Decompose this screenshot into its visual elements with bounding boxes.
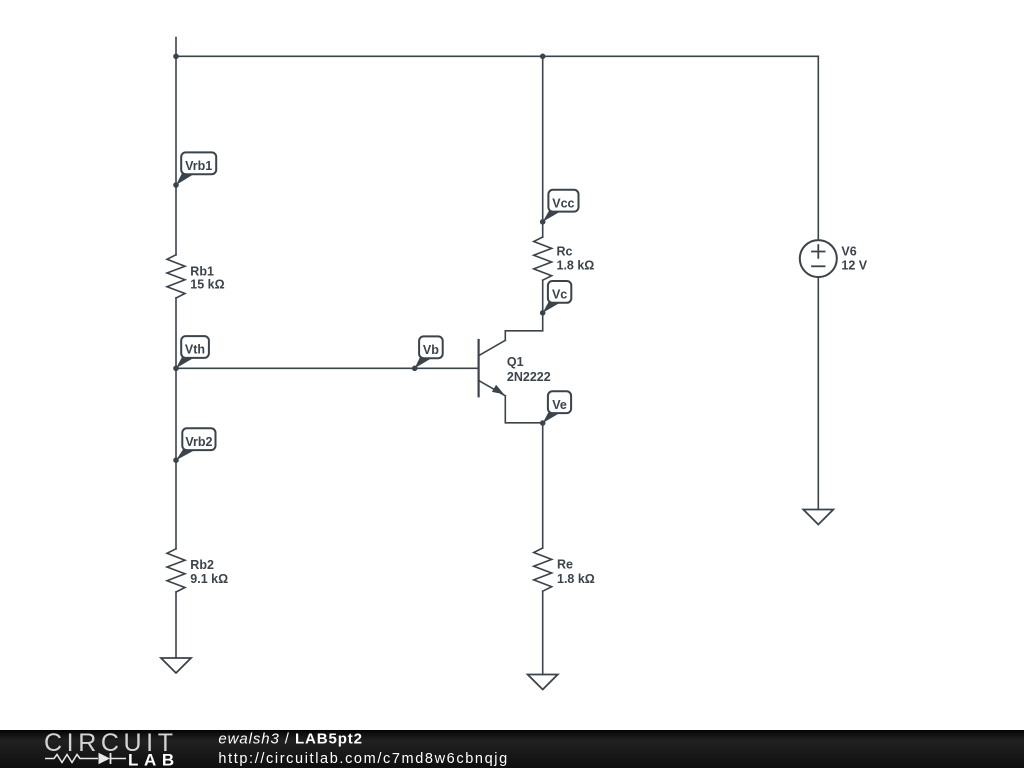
V6 plus sign — [812, 245, 825, 258]
svg-text:Vb: Vb — [423, 343, 439, 357]
svg-text:1.8 kΩ: 1.8 kΩ — [557, 259, 595, 273]
wire middle vertical (rail to Rc) — [542, 56, 544, 237]
label Re value — [557, 558, 595, 587]
wire top-left stub — [175, 38, 177, 57]
svg-text:Vcc: Vcc — [552, 196, 574, 210]
wire Rb2 to ground — [175, 592, 177, 658]
wire Vth node to Rb2 — [175, 368, 177, 549]
node Vc flag — [540, 281, 571, 316]
transistor Q1 collector diagonal — [480, 340, 506, 355]
resistor Re — [534, 548, 552, 591]
wire Ve node to Re — [542, 423, 544, 548]
svg-text:1.8 kΩ: 1.8 kΩ — [557, 572, 595, 586]
wire top rail — [176, 55, 818, 57]
label Rb2 value — [190, 558, 228, 586]
svg-text:http://circuitlab.com/c7md8w6c: http://circuitlab.com/c7md8w6cbnqjg — [218, 751, 508, 767]
voltage source V6 circle — [800, 240, 837, 277]
svg-text:15 kΩ: 15 kΩ — [190, 278, 224, 292]
wire Re to ground — [542, 591, 544, 674]
wire Rc to collector corner — [542, 280, 544, 331]
svg-text:Rc: Rc — [557, 245, 573, 259]
svg-text:Vth: Vth — [185, 343, 205, 357]
ground (middle, below Re) — [528, 675, 558, 690]
svg-text:Re: Re — [557, 558, 573, 572]
wire left vertical upper (rail to Rb1) — [175, 56, 177, 255]
wire right vertical (rail to V6) — [817, 56, 819, 240]
wire V6 to ground — [817, 277, 819, 509]
svg-text:ewalsh3 / LAB5pt2: ewalsh3 / LAB5pt2 — [218, 731, 363, 748]
node Ve flag — [540, 391, 571, 426]
ground (right, below V6) — [803, 510, 833, 525]
node Vb flag — [412, 336, 443, 371]
transistor Q1 emitter diagonal — [480, 381, 506, 396]
transistor Q1 emitter arrowhead — [492, 385, 504, 395]
resistor Rc — [534, 237, 552, 280]
svg-text:LAB: LAB — [128, 751, 175, 768]
wire collector horizontal — [505, 331, 542, 341]
label Q1 2N2222 — [507, 355, 551, 384]
junction dot rail-left — [173, 54, 179, 60]
footer title ewalsh3 / LAB5pt2 — [218, 731, 363, 748]
svg-text:Q1: Q1 — [507, 355, 524, 369]
label Rc value — [557, 245, 595, 273]
node Vrb2 flag — [173, 428, 215, 463]
junction dot rail-middle — [540, 54, 546, 60]
transistor Q1 base bar — [478, 340, 480, 396]
svg-text:12 V: 12 V — [841, 259, 867, 273]
svg-text:V6: V6 — [841, 245, 856, 259]
svg-text:Ve: Ve — [552, 398, 567, 412]
svg-text:Rb1: Rb1 — [190, 265, 214, 279]
node Vcc flag — [540, 190, 579, 225]
svg-text:Vrb1: Vrb1 — [185, 159, 212, 173]
svg-text:9.1 kΩ: 9.1 kΩ — [190, 572, 228, 586]
V6 minus sign — [812, 265, 825, 267]
wire emitter to Ve node — [505, 396, 542, 423]
ground (left, below Rb2) — [161, 658, 191, 673]
resistor Rb2 — [167, 549, 185, 592]
svg-text:Vrb2: Vrb2 — [185, 435, 212, 449]
label V6 value — [841, 245, 867, 273]
CircuitLab logo resistor-diode glyph — [45, 753, 126, 764]
svg-text:Vc: Vc — [552, 288, 567, 302]
label Rb1 value — [190, 265, 224, 292]
CircuitLab logo wordmark — [44, 729, 176, 768]
svg-text:Rb2: Rb2 — [190, 558, 214, 572]
wire Rb1 to Vth node — [175, 298, 177, 368]
wire base horizontal (Vth to Q1) — [176, 367, 478, 369]
node Vth flag — [173, 336, 209, 371]
node Vrb1 flag — [173, 152, 216, 187]
svg-text:2N2222: 2N2222 — [507, 370, 551, 384]
resistor Rb1 — [167, 255, 185, 298]
